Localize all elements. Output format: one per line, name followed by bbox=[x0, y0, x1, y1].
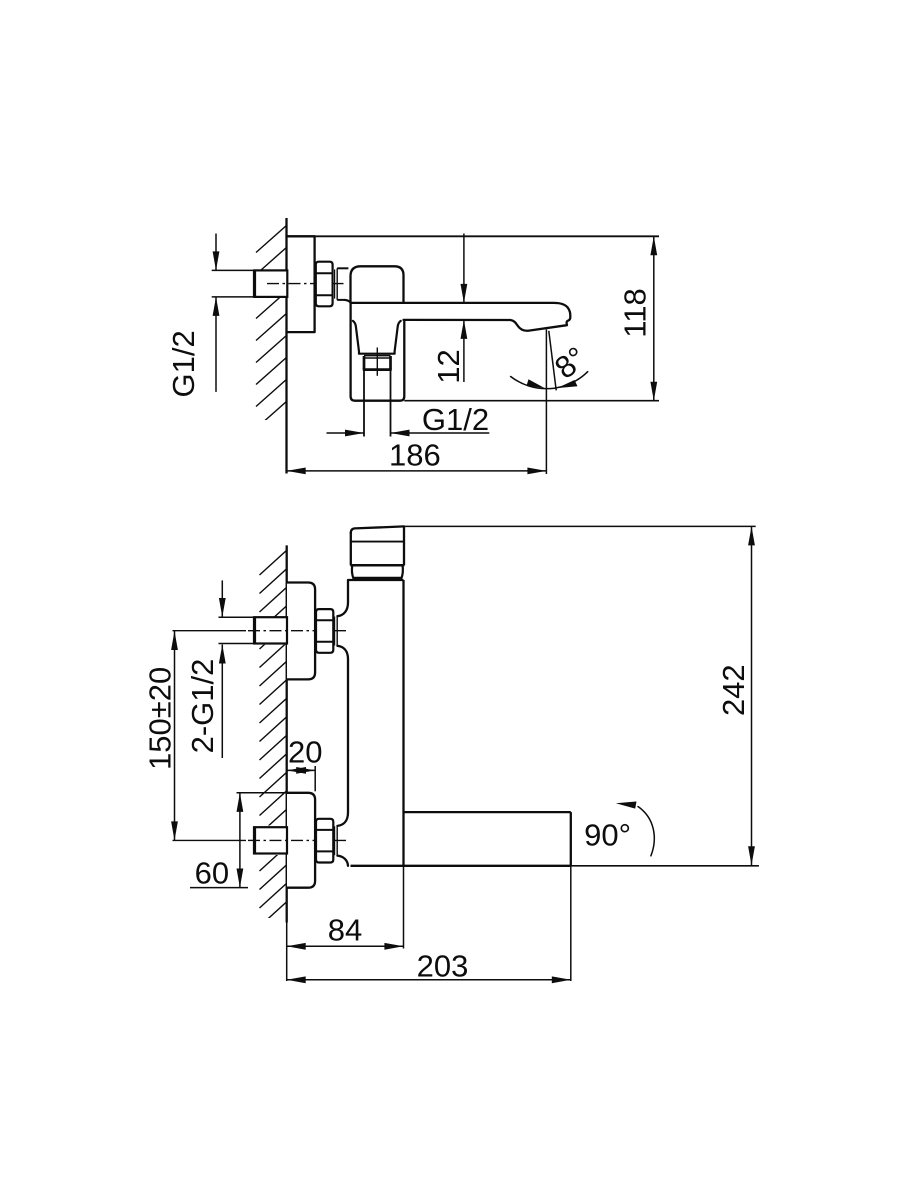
centerline bbox=[173, 839, 247, 841]
wire bbox=[314, 766, 316, 791]
lower wall plate bbox=[287, 793, 315, 888]
centerline bbox=[267, 283, 346, 285]
dimension 60 bbox=[239, 793, 241, 888]
svg-text:90°: 90° bbox=[584, 818, 631, 853]
dimension G1/2 outlet bbox=[327, 432, 365, 434]
funnel taper bbox=[353, 321, 401, 354]
upper wall plate bbox=[287, 583, 315, 680]
wire bbox=[285, 218, 287, 474]
wire bbox=[287, 235, 660, 237]
svg-text:84: 84 bbox=[328, 913, 362, 948]
spout bbox=[351, 303, 571, 331]
wall plate bbox=[287, 236, 315, 332]
dimension 118 overall height bbox=[653, 236, 655, 400]
wire bbox=[237, 792, 288, 794]
shower outlet stub bbox=[364, 355, 391, 357]
wire bbox=[571, 865, 759, 867]
upper supply pipe bbox=[254, 617, 287, 643]
svg-text:150±20: 150±20 bbox=[142, 667, 177, 770]
wire bbox=[404, 525, 756, 527]
faucet body bbox=[351, 266, 404, 303]
collar bbox=[334, 269, 336, 298]
wire bbox=[351, 865, 571, 867]
dimension 84 bbox=[287, 945, 404, 947]
svg-text:242: 242 bbox=[716, 664, 751, 716]
faucet body front view bbox=[348, 579, 404, 581]
dimension 150 plus-minus 20 bbox=[174, 631, 176, 840]
dimension 242 overall height bbox=[751, 526, 753, 865]
dimension 12 spout thickness bbox=[463, 234, 465, 303]
wire bbox=[190, 887, 248, 889]
dimension G1/2 supply pipe bbox=[215, 234, 217, 271]
svg-text:12: 12 bbox=[431, 349, 466, 383]
supply pipe bbox=[254, 270, 287, 297]
centerline bbox=[376, 348, 378, 376]
svg-text:G1/2: G1/2 bbox=[422, 402, 489, 437]
wire bbox=[212, 269, 254, 271]
wire bbox=[570, 866, 572, 981]
svg-text:G1/2: G1/2 bbox=[166, 330, 201, 397]
wire bbox=[219, 643, 255, 645]
centerline bbox=[248, 630, 346, 632]
svg-text:203: 203 bbox=[417, 949, 469, 984]
svg-text:2-G1/2: 2-G1/2 bbox=[185, 659, 220, 754]
dimension 203 bbox=[287, 979, 571, 981]
wire bbox=[286, 545, 288, 922]
handle lever bbox=[351, 526, 404, 533]
centerline bbox=[248, 839, 346, 841]
lower supply pipe bbox=[254, 827, 287, 853]
wire bbox=[390, 370, 392, 437]
lower hex nut bbox=[316, 819, 333, 863]
svg-text:20: 20 bbox=[288, 735, 322, 770]
dimension 20 plate depth bbox=[287, 769, 315, 771]
wire bbox=[545, 329, 547, 474]
upper collar bbox=[334, 617, 336, 646]
wire bbox=[404, 400, 659, 402]
wire bbox=[363, 370, 365, 437]
wire bbox=[212, 296, 254, 298]
svg-text:60: 60 bbox=[195, 856, 229, 891]
hex nut bbox=[316, 262, 333, 307]
spout front view bbox=[404, 811, 571, 813]
dimension 186 spout reach bbox=[287, 470, 547, 472]
svg-text:186: 186 bbox=[389, 438, 441, 473]
wire bbox=[549, 331, 556, 391]
wire bbox=[219, 616, 255, 618]
wire bbox=[286, 923, 288, 982]
body skirt bbox=[351, 304, 405, 401]
angle arc 8deg bbox=[511, 372, 588, 389]
centerline bbox=[173, 630, 247, 632]
svg-text:118: 118 bbox=[618, 288, 653, 337]
swivel arc 90 deg bbox=[638, 807, 654, 856]
upper hex nut bbox=[316, 609, 333, 653]
lower collar bbox=[334, 826, 336, 855]
wire bbox=[403, 866, 405, 949]
dimension 2-G1/2 supply connections bbox=[221, 580, 223, 617]
